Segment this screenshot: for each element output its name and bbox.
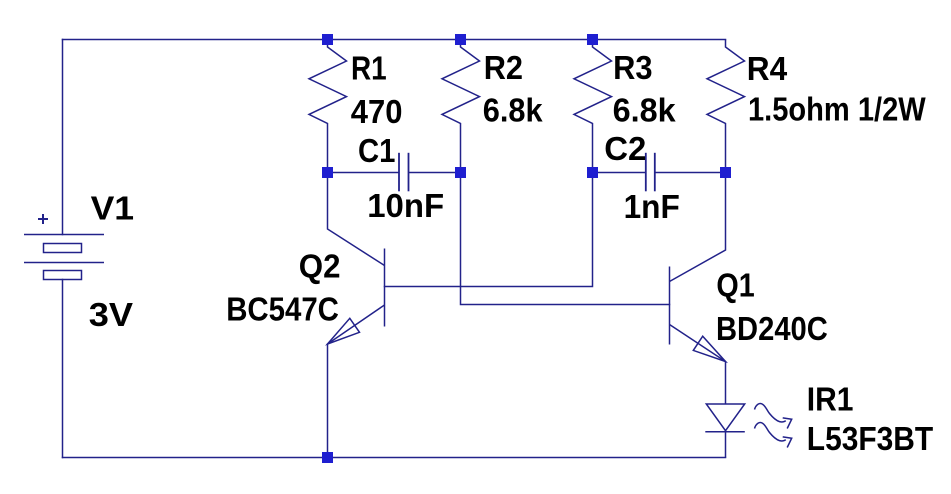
resistor R1 xyxy=(309,40,347,173)
transistor Q2 xyxy=(328,173,385,458)
node R3/C2 xyxy=(587,167,598,178)
svg-text:R2: R2 xyxy=(484,49,523,86)
node R1/C1/Q2 collector xyxy=(322,167,333,178)
resistor R3 xyxy=(574,40,612,173)
svg-text:L53F3BT: L53F3BT xyxy=(807,420,933,457)
svg-text:R1: R1 xyxy=(351,49,387,86)
resistor R4 xyxy=(707,40,745,173)
node C1/R2 xyxy=(455,167,466,178)
wire Q2 base to R3/C2 node xyxy=(385,173,593,287)
svg-text:3V: 3V xyxy=(89,296,133,333)
resistor R2 xyxy=(442,40,480,173)
LED emission arrow 1 xyxy=(755,404,792,429)
wire top rail xyxy=(63,39,726,41)
transistor Q1 xyxy=(670,173,726,405)
node R2 top xyxy=(455,34,466,45)
svg-text:BD240C: BD240C xyxy=(716,310,828,347)
svg-text:C2: C2 xyxy=(604,130,646,167)
svg-text:Q2: Q2 xyxy=(299,248,341,285)
svg-text:6.8k: 6.8k xyxy=(483,92,543,129)
wire bottom rail xyxy=(63,457,726,459)
LED IR1 xyxy=(705,404,745,458)
svg-text:V1: V1 xyxy=(91,190,135,227)
svg-text:10nF: 10nF xyxy=(367,187,444,224)
node C2/R4/Q1 collector xyxy=(720,167,731,178)
svg-text:R3: R3 xyxy=(613,49,652,86)
svg-text:1nF: 1nF xyxy=(624,188,680,225)
capacitor C1 xyxy=(328,153,461,192)
node R1 top xyxy=(322,34,333,45)
svg-text:IR1: IR1 xyxy=(807,380,854,417)
svg-text:BC547C: BC547C xyxy=(226,290,339,327)
svg-text:1.5ohm 1/2W: 1.5ohm 1/2W xyxy=(748,90,926,127)
node Q2 emitter bottom xyxy=(322,452,333,463)
svg-text:C1: C1 xyxy=(358,132,395,169)
wire battery negative lead xyxy=(62,280,64,458)
svg-text:470: 470 xyxy=(351,93,403,130)
wire battery positive lead xyxy=(62,40,64,235)
battery V1 xyxy=(24,214,104,280)
svg-text:R4: R4 xyxy=(747,50,788,87)
svg-text:Q1: Q1 xyxy=(716,267,754,304)
node R3 top xyxy=(587,34,598,45)
svg-text:6.8k: 6.8k xyxy=(613,92,677,129)
LED emission arrow 2 xyxy=(755,423,792,448)
wire C1/R2 node to Q1 base xyxy=(461,173,670,305)
capacitor C2 xyxy=(593,153,726,192)
